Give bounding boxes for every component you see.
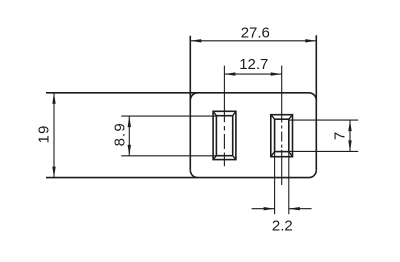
- arrowhead 19 top: [52, 93, 55, 104]
- body corner arc top-left: [190, 93, 197, 100]
- left slot centerline / 12.7 extension line: [223, 66, 225, 167]
- arrowhead 8.9 top: [128, 116, 131, 127]
- dimension 7 extension line top: [289, 119, 358, 121]
- arrowhead 2.2 left (pointing right): [264, 207, 275, 210]
- arrowhead 2.2 right (pointing left): [289, 207, 300, 210]
- dimension 8.9 extension line top: [121, 115, 216, 117]
- right slot inner rectangle: [275, 119, 289, 151]
- body corner arc bottom-left: [190, 170, 197, 177]
- dimension 2.2 dimension line right segment: [289, 208, 312, 210]
- body right edge (with 27.6 extension line, collinear): [315, 35, 317, 170]
- left slot chamfer diagonal bottom-left: [213, 156, 216, 160]
- arrowhead 19 bottom: [52, 167, 55, 178]
- dimension 7 dimension line: [349, 120, 351, 151]
- left slot inner rectangle: [216, 116, 232, 156]
- right slot centerline / 12.7 extension line: [281, 66, 283, 185]
- left slot outer rectangle: [213, 111, 236, 159]
- arrowhead 27.6 right: [305, 39, 316, 42]
- body outline bottom edge (with 19 extension line, collinear): [46, 177, 309, 179]
- right slot chamfer diagonal top-right: [289, 115, 293, 120]
- dimension 7 extension line bottom: [289, 150, 358, 152]
- svg-text:12.7: 12.7: [239, 56, 268, 73]
- dimension 19 dimension line: [53, 93, 55, 178]
- dimension 2.2 dimension line left segment: [252, 208, 275, 210]
- svg-text:7: 7: [332, 132, 349, 140]
- left slot chamfer diagonal bottom-right: [233, 156, 236, 160]
- arrowhead 7 top: [348, 120, 351, 131]
- right slot chamfer diagonal top-left: [271, 115, 275, 120]
- dimension 8.9 extension line bottom: [121, 155, 216, 157]
- dimension 8.9 dimension line: [128, 116, 130, 156]
- right slot chamfer diagonal bottom-right: [289, 152, 293, 157]
- arrowhead 8.9 bottom: [128, 145, 131, 156]
- body left edge (with 27.6 extension line, collinear): [189, 36, 191, 171]
- right slot chamfer diagonal bottom-left: [271, 152, 275, 157]
- left slot chamfer diagonal top-right: [233, 111, 236, 115]
- dimension 27.6 dimension line: [190, 40, 316, 42]
- right slot outer rectangle: [271, 115, 293, 157]
- arrowhead 27.6 left: [190, 39, 201, 42]
- svg-text:19: 19: [35, 125, 52, 144]
- dimension 12.7 dimension line: [224, 73, 281, 75]
- arrowhead 12.7 right: [271, 72, 282, 75]
- body outline top edge (with 19 extension line, collinear): [46, 92, 309, 94]
- svg-text:2.2: 2.2: [272, 217, 293, 234]
- arrowhead 7 bottom: [348, 140, 351, 151]
- body corner arc bottom-right: [309, 170, 316, 177]
- dimension 2.2 extension line left: [274, 152, 276, 214]
- dimension 2.2 extension line right: [288, 152, 290, 214]
- body corner arc top-right: [309, 93, 316, 100]
- left slot chamfer diagonal top-left: [213, 111, 216, 115]
- arrowhead 12.7 left: [224, 72, 235, 75]
- svg-text:27.6: 27.6: [241, 25, 270, 42]
- svg-text:8.9: 8.9: [111, 122, 128, 146]
